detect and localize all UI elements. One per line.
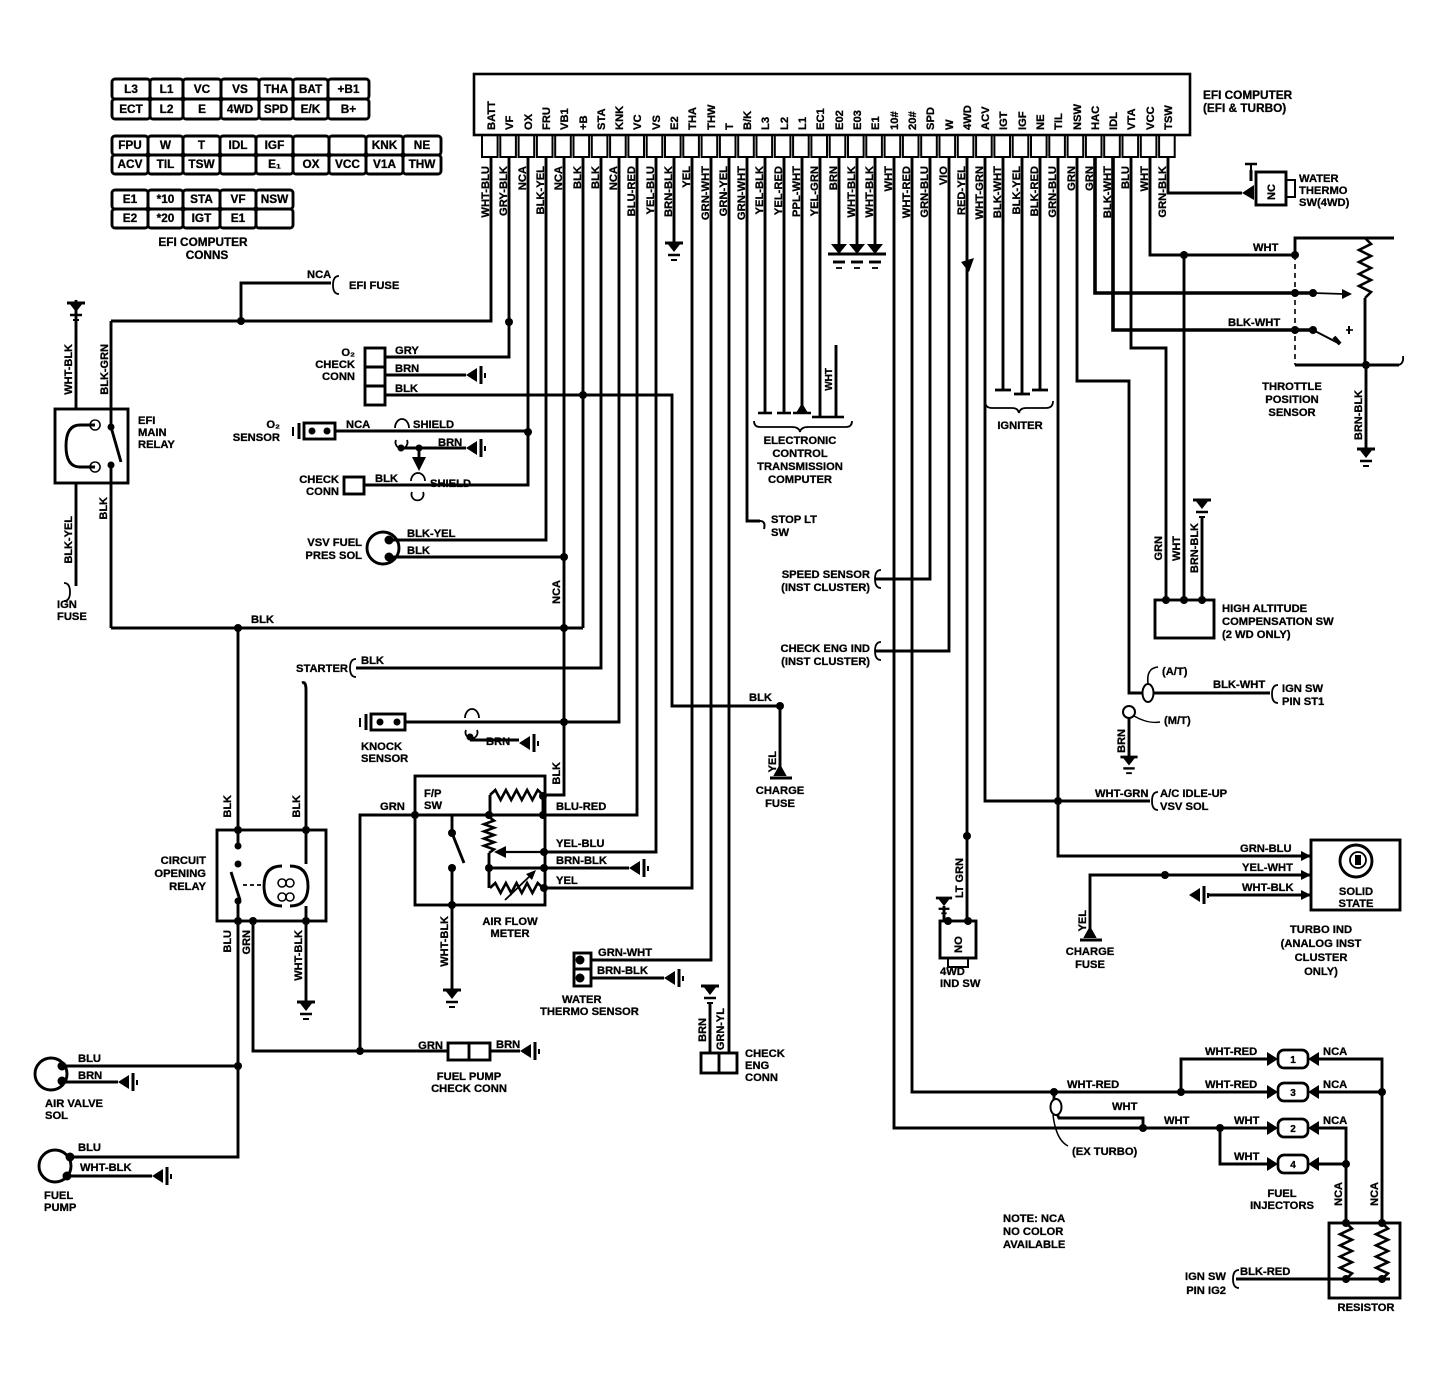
svg-text:YEL-WHT: YEL-WHT bbox=[1242, 862, 1293, 874]
junction resistor bottom terminals bbox=[1342, 1275, 1350, 1283]
svg-text:CHECK CONN: CHECK CONN bbox=[431, 1083, 507, 1095]
svg-text:T: T bbox=[724, 123, 736, 130]
svg-text:ELECTRONIC: ELECTRONIC bbox=[764, 435, 837, 447]
junction VB1 riser with VSV BLK bbox=[560, 553, 568, 561]
ground at 4WD IND SW bbox=[943, 906, 946, 921]
label WATER THERMO SENSOR bbox=[540, 994, 639, 1018]
solid state box bbox=[1311, 840, 1400, 910]
wire VCC WHT pin37 to throttle position sensor bbox=[1150, 157, 1295, 255]
svg-text:BLU-RED: BLU-RED bbox=[556, 801, 606, 813]
svg-text:CHECK: CHECK bbox=[315, 359, 355, 371]
wire to fuel injector 4 bbox=[1220, 1128, 1268, 1164]
svg-text:PIN ST1: PIN ST1 bbox=[1282, 696, 1324, 708]
wire WHT-BLK fuel pump to body connector bbox=[63, 1172, 72, 1181]
svg-text:EFI COMPUTER: EFI COMPUTER bbox=[158, 235, 248, 249]
svg-text:WHT-GRN: WHT-GRN bbox=[1095, 788, 1148, 800]
wire T GRN-YEL pin14 to check eng conn bbox=[728, 157, 731, 1053]
CHECK CONN square connector bbox=[344, 477, 364, 494]
shield drain triangle to check-conn shield bbox=[418, 448, 421, 457]
svg-text:BLK-GRN: BLK-GRN bbox=[99, 344, 111, 395]
wire GRN into air flow meter bbox=[360, 814, 415, 817]
junction node on VF wire bbox=[505, 318, 513, 326]
svg-text:WHT: WHT bbox=[1234, 1115, 1260, 1127]
wire EFI fuse riser NCA bbox=[241, 283, 331, 321]
svg-text:METER: METER bbox=[490, 928, 529, 940]
svg-text:NCA: NCA bbox=[307, 269, 331, 281]
svg-text:RELAY: RELAY bbox=[169, 881, 206, 893]
svg-text:WHT: WHT bbox=[824, 368, 835, 391]
throttle sensor wiper arrow bbox=[1313, 293, 1344, 294]
wire BLK from relay down bbox=[110, 483, 113, 628]
svg-text:V1A: V1A bbox=[373, 157, 396, 171]
svg-text:F/P: F/P bbox=[424, 788, 442, 800]
wire L1 PPL-WHT pin18 to ETC computer bbox=[801, 157, 804, 408]
inline connector (A/T) on IGN SW wire bbox=[1143, 684, 1154, 702]
junction relay bottom pins bbox=[234, 917, 242, 925]
svg-text:BLK: BLK bbox=[375, 473, 398, 485]
svg-text:WHT: WHT bbox=[1234, 1151, 1260, 1163]
wire BLK-RED from IGN SW IG2 bbox=[1236, 1278, 1390, 1281]
svg-text:E: E bbox=[198, 102, 206, 116]
label AIR VALVE SOL bbox=[45, 1098, 104, 1122]
label O2 SENSOR bbox=[233, 419, 280, 444]
svg-text:BLK: BLK bbox=[222, 795, 234, 818]
svg-text:NO COLOR: NO COLOR bbox=[1003, 1226, 1063, 1238]
junction injector 4 branch bbox=[1216, 1124, 1224, 1132]
svg-text:GRN: GRN bbox=[241, 930, 253, 955]
svg-text:O₂: O₂ bbox=[266, 419, 280, 431]
stub wire WHT at ETC computer bbox=[835, 345, 838, 417]
svg-text:VS: VS bbox=[232, 82, 248, 96]
wire NCA to resistor left bbox=[1345, 1164, 1348, 1223]
junction IDL wire at sensor boundary bbox=[1291, 326, 1299, 334]
wire WHT-BLK to solid state from body connector bbox=[1208, 894, 1311, 897]
svg-text:IGN: IGN bbox=[57, 599, 77, 611]
svg-text:L2: L2 bbox=[160, 102, 174, 116]
throttle sensor resistor bbox=[1359, 238, 1371, 298]
svg-text:(INST CLUSTER): (INST CLUSTER) bbox=[781, 656, 870, 668]
IGN FUSE bracket bbox=[64, 583, 70, 601]
svg-text:L1: L1 bbox=[160, 82, 174, 96]
svg-text:NCA: NCA bbox=[551, 580, 563, 604]
svg-text:WHT-BLK: WHT-BLK bbox=[293, 930, 305, 981]
svg-text:GRY: GRY bbox=[395, 345, 419, 357]
ground for throttle sensor bbox=[1357, 449, 1375, 466]
label EFI MAIN RELAY bbox=[138, 415, 175, 451]
svg-text:FUSE: FUSE bbox=[765, 798, 795, 810]
charge fuse terminal symbol bbox=[775, 766, 785, 775]
wires E02/E03/E1 to shared ground bbox=[838, 157, 841, 244]
throttle position sensor outline bbox=[1295, 238, 1394, 255]
svg-text:4WD: 4WD bbox=[227, 102, 254, 116]
svg-text:4WD: 4WD bbox=[962, 105, 974, 130]
junction EFI fuse tap bbox=[237, 317, 245, 325]
svg-text:(EFI & TURBO): (EFI & TURBO) bbox=[1203, 101, 1286, 115]
junction EX TURBO tap bbox=[1050, 1088, 1058, 1096]
svg-text:CONN: CONN bbox=[745, 1072, 778, 1084]
svg-text:CHECK ENG IND: CHECK ENG IND bbox=[780, 643, 870, 655]
label CIRCUIT OPENING RELAY bbox=[154, 855, 206, 893]
AFM bottom variable resistor bbox=[490, 883, 543, 893]
EFI FUSE bracket bbox=[333, 276, 339, 294]
ground stub BRN at check eng conn bbox=[701, 986, 719, 1003]
svg-text:VC: VC bbox=[194, 82, 211, 96]
charge fuse 2 terminal bbox=[1085, 928, 1095, 937]
wire YEL-WHT to solid state with charge fuse tap bbox=[1090, 875, 1311, 933]
wire BLU air valve sol bbox=[64, 1065, 238, 1068]
svg-text:E2: E2 bbox=[123, 211, 138, 225]
EFI main relay box K1 bbox=[55, 409, 128, 483]
svg-text:SW(4WD): SW(4WD) bbox=[1299, 197, 1350, 209]
svg-text:NCA: NCA bbox=[1333, 1182, 1345, 1206]
svg-text:WHT-BLK: WHT-BLK bbox=[439, 916, 451, 967]
svg-text:GRN-YL: GRN-YL bbox=[715, 1008, 727, 1050]
shield hoop on check conn wire bbox=[411, 473, 425, 481]
connector symbol on water thermo BRN-BLK bbox=[664, 969, 683, 987]
svg-text:NCA: NCA bbox=[1323, 1115, 1347, 1127]
svg-text:TSW: TSW bbox=[1163, 105, 1175, 130]
svg-text:THERMO SENSOR: THERMO SENSOR bbox=[540, 1006, 639, 1018]
svg-text:WHT-BLK: WHT-BLK bbox=[80, 1162, 132, 1174]
svg-text:ECT: ECT bbox=[119, 102, 143, 116]
AFM top resistor (zigzag) bbox=[490, 790, 543, 800]
AFM internal bus y815 bbox=[415, 814, 543, 817]
svg-text:IGF: IGF bbox=[1017, 111, 1029, 130]
wire NCA to resistor right bbox=[1381, 1092, 1384, 1223]
connector symbol at air valve BRN bbox=[118, 1073, 137, 1091]
svg-text:O₂: O₂ bbox=[341, 347, 355, 359]
svg-text:FRU: FRU bbox=[541, 107, 553, 130]
svg-text:BRN: BRN bbox=[438, 437, 462, 449]
wire BRN-BLK water thermo sensor to body connector bbox=[592, 977, 664, 980]
svg-text:W: W bbox=[944, 119, 956, 130]
wire 4WD RED-YEL pin27 to 4WD indicator switch bbox=[966, 157, 969, 921]
svg-text:BATT: BATT bbox=[486, 101, 498, 130]
label FUEL INJECTORS bbox=[1250, 1188, 1314, 1212]
wire BLK-YEL relay to IGN fuse bbox=[75, 483, 78, 586]
svg-text:GRN: GRN bbox=[1153, 536, 1165, 561]
ground below circuit opening relay bbox=[297, 1002, 315, 1019]
wire WHT-BLK from F/P SW to ground bbox=[451, 905, 454, 990]
CHECK ENG IND bracket bbox=[875, 642, 881, 660]
svg-text:NCA: NCA bbox=[1323, 1079, 1347, 1091]
wire WHT-BLK ground to relay bbox=[75, 322, 78, 409]
wire BLU from relay to fuel pump bbox=[72, 921, 238, 1157]
junction HAC wire at sensor boundary bbox=[1291, 289, 1299, 297]
svg-text:BRN-BLK: BRN-BLK bbox=[1353, 390, 1365, 440]
svg-text:FUSE: FUSE bbox=[1075, 959, 1105, 971]
label ELECTRONIC CONTROL TRANSMISSION COMPUTER bbox=[757, 435, 843, 486]
svg-text:THA: THA bbox=[687, 107, 699, 130]
svg-text:SHIELD: SHIELD bbox=[413, 419, 454, 431]
svg-text:WHT: WHT bbox=[1112, 1101, 1138, 1113]
svg-text:KNOCK: KNOCK bbox=[361, 741, 402, 753]
fuel injector 3 bbox=[1267, 1083, 1319, 1101]
water thermo switch connector NC bbox=[1242, 164, 1257, 200]
wire KNK NCA pin8 to knock sensor bbox=[405, 157, 619, 722]
label SOLID STATE bbox=[1338, 886, 1374, 910]
svg-text:SENSOR: SENSOR bbox=[233, 432, 280, 444]
svg-text:POSITION: POSITION bbox=[1265, 394, 1318, 406]
wire NCA from O2 sensor to OX bbox=[335, 430, 528, 433]
label KNOCK SENSOR bbox=[361, 741, 408, 765]
svg-text:CLUSTER: CLUSTER bbox=[1295, 952, 1348, 964]
label HIGH ALTITUDE COMPENSATION SW (2 WD ONLY) bbox=[1222, 603, 1334, 641]
ground symbol above EFI main relay (WHT-BLK) bbox=[75, 300, 78, 322]
label NOTE NCA NO COLOR AVAILABLE bbox=[1003, 1213, 1066, 1251]
wire BLK VSV to VB1 riser bbox=[392, 556, 564, 559]
connector teeth row (38 pins) bbox=[482, 135, 1175, 157]
wires IGT IGF NE pins 29-31 to igniter bbox=[1002, 157, 1005, 390]
svg-text:TIL: TIL bbox=[157, 157, 175, 171]
connector table 1 (L3/L1/VC/VS/THA/BAT/+B1 over ECT/L2/E/4WD/SPD/E/K/B+) bbox=[112, 79, 369, 119]
svg-text:NE: NE bbox=[1035, 114, 1047, 130]
svg-text:SW: SW bbox=[771, 527, 789, 539]
svg-text:VTA: VTA bbox=[1126, 108, 1138, 130]
svg-text:NO: NO bbox=[953, 936, 965, 953]
EFI computer connector box U1 bbox=[474, 74, 1190, 135]
wire E2 BRN-BLK pin11 to ground bbox=[673, 157, 676, 243]
svg-text:CONTROL: CONTROL bbox=[772, 448, 827, 460]
junction IDL switch node bbox=[1309, 326, 1317, 334]
wire BLK check conn to OX riser bbox=[364, 432, 528, 485]
wire GRN-WHT water thermo sensor bbox=[592, 959, 711, 962]
wire BRN from O2 check conn to body connector bbox=[385, 374, 466, 377]
junction AFM BLU-RED node bbox=[539, 811, 547, 819]
svg-text:BLK-WHT: BLK-WHT bbox=[1213, 679, 1265, 691]
svg-text:WHT: WHT bbox=[1253, 242, 1279, 254]
wire B/K GRN-WHT pin15 to stop light switch bbox=[747, 157, 760, 521]
svg-text:MAIN: MAIN bbox=[138, 427, 167, 439]
wire ACV WHT-GRN pin28 to A/C idle-up VSV solenoid bbox=[985, 157, 1150, 801]
STARTER bracket bbox=[350, 659, 356, 677]
O2 sensor harness-side symbol bbox=[293, 423, 299, 439]
svg-text:SW: SW bbox=[424, 800, 442, 812]
svg-text:COMPENSATION SW: COMPENSATION SW bbox=[1222, 616, 1334, 628]
svg-text:WHT: WHT bbox=[1164, 1115, 1190, 1127]
svg-text:OX: OX bbox=[523, 113, 535, 130]
fuel injector 2 bbox=[1267, 1119, 1319, 1137]
high altitude compensation switch box bbox=[1155, 600, 1214, 638]
svg-text:(ANALOG INST: (ANALOG INST bbox=[1281, 938, 1362, 950]
shield hoop on O2 sensor wire bbox=[395, 419, 409, 428]
svg-text:(A/T): (A/T) bbox=[1162, 666, 1188, 678]
svg-text:E03: E03 bbox=[852, 110, 864, 130]
junction GRN at AFM edge bbox=[411, 811, 419, 819]
svg-text:BLK-YEL: BLK-YEL bbox=[63, 516, 75, 564]
svg-text:BLK: BLK bbox=[551, 762, 563, 785]
svg-text:STATE: STATE bbox=[1338, 898, 1374, 910]
svg-text:WHT: WHT bbox=[1171, 536, 1183, 561]
svg-text:IGN SW: IGN SW bbox=[1185, 1271, 1226, 1283]
svg-text:BLU: BLU bbox=[78, 1142, 101, 1154]
svg-text:B/K: B/K bbox=[742, 111, 754, 130]
junction at throttle sensor top bbox=[1291, 251, 1299, 259]
throttle idle switch lever bbox=[1313, 330, 1340, 344]
wire +B BLK pin6 to BLK net bbox=[582, 157, 585, 628]
svg-text:CONN: CONN bbox=[306, 486, 339, 498]
svg-text:VSV SOL: VSV SOL bbox=[1160, 801, 1209, 813]
svg-text:CHECK: CHECK bbox=[745, 1048, 785, 1060]
svg-text:3: 3 bbox=[1290, 1088, 1296, 1099]
fuel injector 1 bbox=[1267, 1050, 1319, 1068]
svg-text:*10: *10 bbox=[157, 192, 175, 206]
pin name labels (rotated) on EFI computer bbox=[486, 101, 1175, 130]
label TURBO IND (ANALOG INST CLUSTER ONLY) bbox=[1281, 924, 1362, 978]
connector symbol on shield drain bbox=[466, 439, 485, 457]
svg-text:SPD: SPD bbox=[925, 107, 937, 130]
svg-text:SPEED SENSOR: SPEED SENSOR bbox=[782, 569, 870, 581]
4WD IND SW connector bbox=[940, 921, 976, 958]
svg-text:HAC: HAC bbox=[1090, 106, 1102, 130]
junction AFM BRN-BLK node bbox=[540, 864, 548, 872]
svg-text:VSV FUEL: VSV FUEL bbox=[307, 537, 362, 549]
svg-text:CIRCUIT: CIRCUIT bbox=[161, 855, 207, 867]
junction injector 1 branch bbox=[1177, 1088, 1185, 1096]
svg-text:(2 WD ONLY): (2 WD ONLY) bbox=[1222, 629, 1291, 641]
junction relay top pins bbox=[234, 826, 242, 834]
label O2 CHECK CONN bbox=[315, 347, 355, 383]
junction NCA node right bbox=[1378, 1088, 1386, 1096]
svg-text:IGF: IGF bbox=[265, 138, 285, 152]
wire VS YEL-BLU pin10 to AFM bbox=[544, 157, 656, 852]
svg-text:NE: NE bbox=[414, 138, 431, 152]
svg-text:SHIELD: SHIELD bbox=[430, 478, 471, 490]
wire THA YEL pin12 to AFM bbox=[544, 157, 692, 888]
wire BRN below M/T connector bbox=[1128, 718, 1131, 757]
svg-text:SOLID: SOLID bbox=[1339, 886, 1373, 898]
solid state input arrows bbox=[1301, 851, 1311, 861]
junction AFM mid node bbox=[485, 811, 493, 819]
label IGN FUSE bbox=[57, 599, 87, 623]
junction AFM YEL-BLU node bbox=[540, 848, 548, 856]
junction throttle sensor ground node bbox=[1362, 361, 1370, 369]
svg-text:BLK: BLK bbox=[407, 545, 430, 557]
svg-text:YEL: YEL bbox=[556, 875, 578, 887]
svg-text:IDL: IDL bbox=[1108, 112, 1120, 130]
svg-text:LT GRN: LT GRN bbox=[954, 858, 966, 898]
svg-text:TURBO IND: TURBO IND bbox=[1290, 924, 1352, 936]
svg-text:WATER: WATER bbox=[1299, 173, 1339, 185]
junction OX with O2 sensor NCA wire bbox=[524, 428, 532, 436]
fuel injector 4 bbox=[1267, 1155, 1319, 1173]
svg-text:FPU: FPU bbox=[118, 138, 142, 152]
svg-text:PUMP: PUMP bbox=[44, 1202, 77, 1214]
wire L3 YEL-BLK pin16 to ETC computer bbox=[764, 157, 767, 413]
A/C IDLE-UP bracket bbox=[1152, 792, 1158, 810]
junction VB1 riser with knock sensor wire bbox=[560, 718, 568, 726]
wire BLK from BLK net to circuit opening relay bbox=[237, 628, 240, 830]
circuit opening relay coil bbox=[305, 830, 308, 864]
svg-text:IGT: IGT bbox=[998, 111, 1010, 130]
svg-text:BRN: BRN bbox=[496, 1039, 520, 1051]
svg-text:TRANSMISSION: TRANSMISSION bbox=[757, 461, 843, 473]
svg-text:CHECK: CHECK bbox=[299, 474, 339, 486]
wire SPD GRN-BLU pin25 to speed sensor bbox=[875, 157, 930, 579]
ETC computer brace bbox=[754, 421, 852, 432]
svg-text:VCC: VCC bbox=[335, 157, 360, 171]
svg-text:GRN: GRN bbox=[418, 1040, 443, 1052]
label EFI COMPUTER CONNS bbox=[158, 235, 248, 262]
svg-text:VCC: VCC bbox=[1145, 106, 1157, 130]
svg-text:20#: 20# bbox=[907, 111, 919, 130]
wire GRN from relay to fuel pump check conn bbox=[253, 921, 448, 1051]
wire STA BLK pin7 to starter bbox=[356, 157, 601, 668]
svg-text:OPENING: OPENING bbox=[154, 868, 206, 880]
wire colour labels (rotated) below connector bbox=[480, 166, 1169, 220]
wire W VIO pin26 to check engine indicator bbox=[875, 157, 949, 651]
svg-text:WHT-RED: WHT-RED bbox=[1205, 1046, 1257, 1058]
svg-text:4WD: 4WD bbox=[940, 966, 965, 978]
svg-text:GRN: GRN bbox=[380, 801, 405, 813]
shield drain wire BRN bbox=[398, 445, 405, 452]
svg-text:OX: OX bbox=[302, 157, 319, 171]
junction BLU wire with air valve sol bbox=[234, 1062, 242, 1070]
shield hoop on knock sensor wire bbox=[465, 709, 479, 718]
svg-text:HIGH ALTITUDE: HIGH ALTITUDE bbox=[1222, 603, 1308, 615]
svg-text:BLK: BLK bbox=[749, 692, 772, 704]
svg-text:(M/T): (M/T) bbox=[1164, 715, 1191, 727]
svg-text:BLK: BLK bbox=[361, 655, 384, 667]
svg-text:BLK-RED: BLK-RED bbox=[1240, 1266, 1290, 1278]
wire BLK horizontal distribution net bbox=[111, 627, 583, 630]
junction AFM YEL node bbox=[540, 884, 548, 892]
svg-text:L1: L1 bbox=[797, 117, 809, 130]
wire IDL BLK-WHT pin35 to throttle position sensor idle switch bbox=[1113, 157, 1313, 330]
wire THW GRN-WHT pin13 to water thermo sensor bbox=[592, 157, 711, 960]
svg-text:ACV: ACV bbox=[118, 157, 143, 171]
svg-text:THW: THW bbox=[706, 104, 718, 130]
HAC switch pin junctions bbox=[1162, 596, 1170, 604]
svg-text:TSW: TSW bbox=[188, 157, 215, 171]
wire WHT-BLK from relay to ground bbox=[305, 921, 308, 1002]
connector symbol at fuel pump check conn bbox=[520, 1042, 539, 1060]
svg-text:BLU: BLU bbox=[222, 930, 234, 953]
svg-text:WHT-RED: WHT-RED bbox=[1067, 1079, 1119, 1091]
label WATER THERMO SW(4WD) bbox=[1299, 173, 1350, 209]
svg-text:SENSOR: SENSOR bbox=[361, 753, 408, 765]
junction charge fuse tap bbox=[776, 702, 784, 710]
svg-text:COMPUTER: COMPUTER bbox=[768, 474, 832, 486]
svg-text:NCA: NCA bbox=[1323, 1046, 1347, 1058]
label IGN SW PIN IG2 bbox=[1185, 1271, 1226, 1297]
connector symbol at fuel pump WHT-BLK bbox=[152, 1167, 171, 1185]
wire 20# WHT-RED pin24 to fuel injectors 1 and 3 bbox=[912, 157, 1268, 1092]
label F/P SW bbox=[424, 788, 442, 812]
junction AFM resistor right bbox=[539, 792, 547, 800]
svg-text:*20: *20 bbox=[157, 211, 175, 225]
svg-text:EC1: EC1 bbox=[815, 108, 827, 130]
label FUEL PUMP bbox=[44, 1190, 77, 1214]
SPEED SENSOR bracket bbox=[875, 570, 881, 588]
svg-text:L2: L2 bbox=[779, 117, 791, 130]
svg-text:VF: VF bbox=[504, 116, 516, 130]
svg-text:NCA: NCA bbox=[346, 419, 370, 431]
wire VB1 NCA pin5 down to air flow meter resistor bbox=[545, 157, 564, 795]
junction BLK net with VB1 wire bbox=[560, 624, 568, 632]
svg-text:(INST CLUSTER): (INST CLUSTER) bbox=[781, 582, 870, 594]
junction fuel pump BLU bbox=[66, 1153, 75, 1162]
wire NSW GRN pin33 to ignition switch ST1 bbox=[1077, 157, 1270, 693]
svg-text:CONN: CONN bbox=[322, 371, 355, 383]
svg-text:BRN-BLK: BRN-BLK bbox=[597, 965, 648, 977]
wire NCA injector 2 bbox=[1318, 1128, 1346, 1164]
svg-text:NSW: NSW bbox=[1072, 103, 1084, 130]
O2 sensor connector bbox=[304, 423, 335, 439]
wire GRN riser from AFM to fuel pump check conn net bbox=[360, 815, 415, 1051]
svg-text:FUEL: FUEL bbox=[1267, 1188, 1296, 1200]
svg-text:E02: E02 bbox=[834, 110, 846, 130]
